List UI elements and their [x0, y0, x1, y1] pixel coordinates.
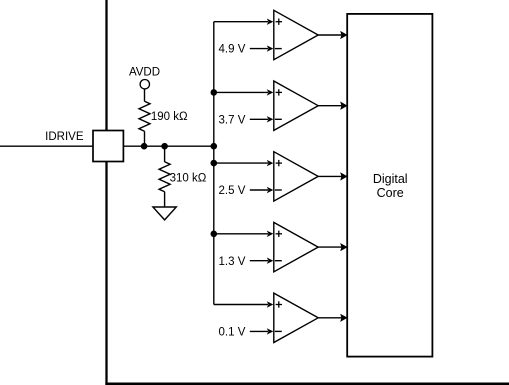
- svg-text:1.3 V: 1.3 V: [219, 256, 246, 268]
- svg-text:AVDD: AVDD: [129, 66, 160, 78]
- svg-text:4.9 V: 4.9 V: [219, 44, 246, 56]
- svg-text:190 kΩ: 190 kΩ: [151, 111, 188, 123]
- svg-text:Core: Core: [377, 186, 404, 200]
- svg-text:2.5 V: 2.5 V: [219, 185, 246, 197]
- svg-text:310 kΩ: 310 kΩ: [170, 172, 207, 184]
- svg-text:Digital: Digital: [373, 172, 408, 186]
- svg-text:3.7 V: 3.7 V: [219, 114, 246, 126]
- svg-text:0.1 V: 0.1 V: [219, 327, 246, 339]
- svg-text:IDRIVE: IDRIVE: [45, 131, 84, 143]
